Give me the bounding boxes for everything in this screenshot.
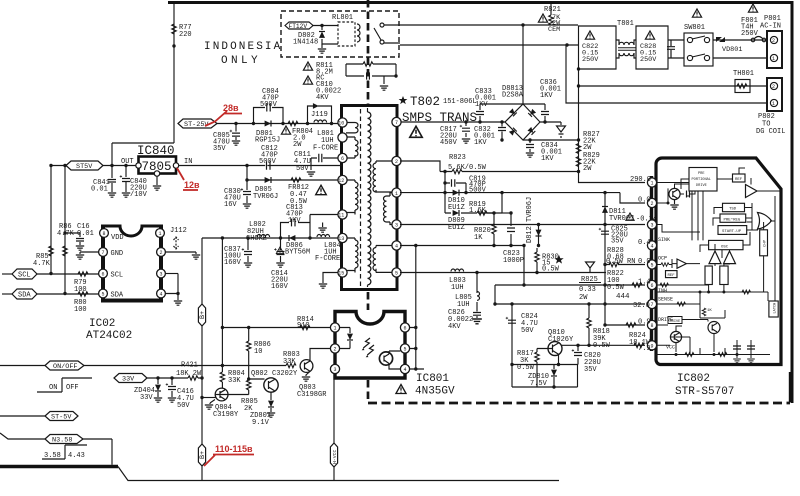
svg-text:IC801: IC801 bbox=[416, 373, 449, 385]
svg-text:10: 10 bbox=[254, 348, 262, 356]
svg-text:F-CORE: F-CORE bbox=[313, 145, 338, 153]
svg-text:ST-5V: ST-5V bbox=[51, 414, 72, 422]
wire FT12V to relay bbox=[312, 25, 338, 27]
svg-text:PRE*REG: PRE*REG bbox=[724, 217, 741, 222]
isolation dashed boundary vertical bbox=[367, 0, 370, 104]
svg-text:32.0: 32.0 bbox=[633, 302, 650, 310]
warning triangle C810 bbox=[303, 76, 312, 84]
IC802 internal: OR gate bbox=[758, 213, 772, 230]
diode D810 bbox=[453, 190, 459, 196]
svg-text:0.4: 0.4 bbox=[638, 239, 651, 247]
node bbox=[394, 74, 397, 77]
right winding seg pins4-5 bbox=[373, 246, 393, 273]
resistor R77 bbox=[172, 24, 176, 34]
capacitor C805 bbox=[235, 124, 237, 141]
svg-text:7.9: 7.9 bbox=[638, 345, 651, 353]
svg-text:SDA: SDA bbox=[111, 292, 124, 300]
svg-text:PORTIONAL: PORTIONAL bbox=[692, 178, 711, 182]
svg-text:12: 12 bbox=[338, 178, 344, 184]
svg-text:50V: 50V bbox=[177, 402, 190, 410]
svg-text:INH: INH bbox=[658, 288, 667, 294]
wire pin4 bbox=[400, 245, 524, 247]
capacitor C828 symbol bbox=[667, 40, 675, 58]
svg-text:D812 TVR06J: D812 TVR06J bbox=[526, 197, 534, 243]
IC801 phototransistor bbox=[379, 352, 392, 365]
resistor R822 bbox=[632, 283, 642, 287]
svg-text:35V: 35V bbox=[584, 366, 597, 374]
warning triangle T802 bbox=[410, 126, 422, 137]
svg-text:IC802: IC802 bbox=[677, 373, 710, 385]
svg-text:3: 3 bbox=[651, 223, 654, 229]
IC802 pin bar bbox=[650, 176, 653, 351]
svg-text:160V: 160V bbox=[271, 283, 289, 291]
svg-text:OCP: OCP bbox=[658, 256, 667, 262]
emitter bus bbox=[512, 364, 578, 366]
svg-text:1N4148: 1N4148 bbox=[293, 39, 318, 47]
ground bbox=[380, 86, 388, 90]
ground arrow bbox=[557, 126, 566, 132]
svg-text:220: 220 bbox=[179, 31, 192, 39]
svg-text:/10V: /10V bbox=[130, 191, 148, 199]
svg-text:1K: 1K bbox=[707, 309, 712, 313]
svg-text:4.43: 4.43 bbox=[68, 452, 85, 460]
zener ZD801 bbox=[270, 392, 272, 412]
capacitor C814 bbox=[280, 238, 282, 262]
svg-text:TVR06J: TVR06J bbox=[253, 193, 278, 201]
svg-text:3: 3 bbox=[395, 223, 398, 229]
zener ZD404 bbox=[157, 378, 159, 397]
IC802 pin 8 bbox=[647, 320, 656, 329]
red annotation 12v bbox=[177, 168, 184, 180]
diode D812 bbox=[538, 225, 540, 246]
Q803 collector to IC801 pin2 bbox=[310, 349, 330, 362]
IC802 internal: START-UP box bbox=[718, 226, 747, 235]
IC802 internal resistors and caps bottom bbox=[685, 353, 694, 357]
resistor R803 bbox=[286, 363, 296, 367]
warning triangle R811 bbox=[303, 62, 312, 70]
IC802 internal: ground bbox=[674, 200, 676, 204]
svg-text:TSD: TSD bbox=[729, 208, 737, 212]
flag N3.58 bbox=[0, 433, 45, 439]
svg-text:7: 7 bbox=[651, 302, 654, 308]
svg-text:1000P: 1000P bbox=[503, 257, 524, 265]
resistor R421 18K 2W bbox=[188, 376, 198, 380]
wire 33V bbox=[147, 377, 202, 379]
diodes VD801 bbox=[716, 37, 725, 42]
svg-text:100: 100 bbox=[74, 286, 87, 294]
wire pin1 feedback bbox=[400, 193, 645, 203]
warning triangle FR812 bbox=[316, 185, 327, 194]
red annotation 110-115v bbox=[204, 455, 215, 466]
wire pin2 to R823 bbox=[400, 161, 440, 172]
flag ST5V bbox=[66, 161, 103, 170]
left winding seg2 bbox=[346, 137, 358, 158]
wire to P802 lower bbox=[566, 45, 768, 103]
svg-text:REF: REF bbox=[735, 178, 743, 182]
wire to R830 bbox=[477, 272, 537, 274]
wire D805 row bbox=[247, 166, 338, 181]
svg-text:5: 5 bbox=[395, 271, 398, 277]
svg-text:1.4: 1.4 bbox=[638, 279, 651, 287]
switch SW801 bbox=[692, 9, 701, 17]
Q804 emitter ground bbox=[210, 400, 215, 405]
wire R77 rail bbox=[112, 4, 174, 166]
wire SCL bbox=[37, 273, 99, 275]
svg-text:1KV: 1KV bbox=[475, 101, 488, 109]
wire pin3 to IC802 bbox=[400, 224, 645, 226]
flag 33V bbox=[114, 374, 147, 383]
svg-text:BYT56M: BYT56M bbox=[285, 249, 310, 257]
wire R806 to Q802 base bbox=[216, 379, 265, 395]
pin 5 bbox=[392, 268, 401, 277]
primary winding bbox=[368, 112, 371, 285]
secondary rail to R814 bbox=[221, 238, 223, 366]
svg-text:28в: 28в bbox=[223, 103, 239, 113]
IC802 internal: REF box bbox=[733, 174, 746, 182]
svg-text:N3.58: N3.58 bbox=[52, 437, 72, 445]
right border inner bar bbox=[789, 372, 792, 402]
SENSE wire bbox=[495, 303, 645, 305]
wire bridge right to ground arrow bbox=[540, 122, 561, 125]
svg-text:H-VCC: H-VCC bbox=[332, 449, 338, 464]
svg-text:250V: 250V bbox=[582, 56, 599, 64]
svg-text:OFF: OFF bbox=[66, 384, 79, 392]
resistor R829 bbox=[576, 157, 580, 167]
dashed relay box bbox=[281, 11, 399, 57]
svg-text:2W: 2W bbox=[293, 141, 302, 149]
svg-text:2: 2 bbox=[772, 38, 775, 44]
pin 13 bbox=[338, 233, 347, 242]
resistor R86 bbox=[49, 246, 53, 256]
svg-text:2W: 2W bbox=[583, 144, 592, 152]
svg-text:J112: J112 bbox=[170, 227, 187, 235]
flag B+ upper bbox=[198, 304, 205, 326]
svg-text:1KV: 1KV bbox=[474, 139, 487, 147]
diode D802 bbox=[322, 26, 338, 45]
svg-text:0.5W: 0.5W bbox=[517, 364, 535, 372]
svg-text:7: 7 bbox=[395, 120, 398, 126]
flag ST-5V bbox=[0, 415, 45, 417]
svg-text:DG COIL: DG COIL bbox=[756, 128, 785, 136]
svg-text:STR-S5707: STR-S5707 bbox=[675, 386, 734, 398]
wire ST-25V rail bbox=[217, 123, 342, 125]
VCC wire pin9 bbox=[561, 344, 645, 346]
svg-text:1: 1 bbox=[159, 231, 162, 237]
svg-text:2: 2 bbox=[334, 347, 337, 353]
flag ON/OFF bbox=[45, 361, 84, 370]
svg-text:SW801: SW801 bbox=[684, 24, 705, 32]
resistor FR804 bbox=[288, 121, 298, 125]
svg-text:35V: 35V bbox=[213, 145, 226, 153]
pin 2 bbox=[157, 248, 166, 257]
capacitor C825 bbox=[599, 228, 609, 234]
zener ZD810 box bbox=[512, 304, 578, 387]
svg-text:9.1V: 9.1V bbox=[252, 419, 270, 427]
wire to P802 upper bbox=[579, 69, 769, 86]
svg-text:TH801: TH801 bbox=[733, 70, 754, 78]
Q810 emitter bbox=[558, 354, 560, 364]
capacitor C824 bbox=[506, 317, 516, 323]
svg-text:33K: 33K bbox=[283, 358, 296, 366]
svg-text:8: 8 bbox=[651, 323, 654, 329]
transformer core dashed bbox=[360, 109, 362, 286]
resistor R79 bbox=[78, 272, 88, 276]
capacitor C820 bbox=[577, 345, 579, 364]
resistor R804 bbox=[221, 366, 223, 389]
svg-text:6: 6 bbox=[102, 272, 105, 278]
regulator IC840 7805 bbox=[139, 157, 177, 174]
IC802 internal: cap bbox=[687, 191, 690, 198]
wire pin15 to ground bbox=[323, 273, 338, 284]
pin 10 bbox=[338, 118, 347, 127]
pin 8 VDD bbox=[100, 229, 109, 238]
IC801 pin 4 bbox=[400, 364, 409, 373]
ground 7805 bbox=[156, 176, 158, 185]
left winding seg1 bbox=[346, 123, 358, 133]
resistor R827 bbox=[576, 144, 580, 154]
svg-text:0.33: 0.33 bbox=[579, 286, 596, 294]
svg-text:ON: ON bbox=[49, 384, 57, 392]
svg-text:4N35GV: 4N35GV bbox=[415, 386, 455, 398]
transistor Q810 bbox=[548, 342, 562, 356]
svg-text:9: 9 bbox=[651, 344, 654, 350]
wire IN to C830 bbox=[179, 165, 342, 167]
pin 6 SCL bbox=[99, 269, 108, 278]
svg-text:3: 3 bbox=[334, 367, 337, 373]
svg-text:151-806L: 151-806L bbox=[443, 98, 477, 106]
capacitor C826 bbox=[476, 310, 478, 318]
flag SCL bbox=[2, 273, 12, 275]
IC802 internal wires bbox=[656, 168, 781, 352]
IC801 pin 3 bbox=[330, 364, 339, 373]
IC802 internal: PRE REG box bbox=[720, 214, 746, 222]
svg-text:2: 2 bbox=[395, 159, 398, 165]
svg-text:0.5W: 0.5W bbox=[593, 342, 611, 350]
svg-text:500V: 500V bbox=[259, 158, 277, 166]
transformer T802 body bbox=[342, 106, 398, 290]
pin 7 GND bbox=[99, 248, 108, 257]
IC802 internal: CHP box bbox=[760, 230, 768, 256]
svg-text:16V: 16V bbox=[224, 201, 237, 209]
wire C823 node to bus bbox=[523, 246, 525, 286]
wire IC801 pin6/5/4 bus bbox=[410, 246, 424, 370]
svg-text:15: 15 bbox=[338, 271, 344, 277]
inductor L803 bbox=[451, 269, 464, 272]
svg-text:50V: 50V bbox=[521, 327, 534, 335]
node bbox=[234, 122, 237, 125]
IC801 pin 5 bbox=[400, 344, 409, 353]
transistor Q804 bbox=[215, 388, 228, 401]
capacitor C840 bbox=[125, 166, 127, 193]
svg-text:0.0: 0.0 bbox=[638, 197, 651, 205]
svg-text:1: 1 bbox=[395, 191, 398, 197]
capacitor C823 bbox=[510, 213, 512, 246]
svg-text:1: 1 bbox=[334, 326, 337, 332]
svg-text:444: 444 bbox=[616, 293, 630, 301]
wires SW to fuse bbox=[713, 40, 768, 58]
svg-text:7: 7 bbox=[102, 250, 105, 256]
resistor R806 bbox=[248, 328, 250, 380]
svg-text:VDD: VDD bbox=[111, 234, 124, 242]
svg-text:0.01: 0.01 bbox=[91, 186, 108, 194]
HV dropper rail bbox=[578, 86, 580, 172]
fuse F801 bbox=[748, 4, 757, 12]
resistor R85 bbox=[63, 246, 67, 256]
inductor L801 bbox=[314, 120, 327, 123]
node bbox=[565, 43, 568, 46]
svg-text:33V: 33V bbox=[140, 394, 153, 402]
svg-text:2: 2 bbox=[651, 201, 654, 207]
svg-text:1UH: 1UH bbox=[457, 301, 470, 309]
Q804 base wire bbox=[202, 397, 216, 399]
svg-text:35V: 35V bbox=[611, 238, 624, 246]
IC802 pin 5 bbox=[647, 260, 656, 269]
AC wire lower bbox=[400, 44, 578, 46]
svg-text:8: 8 bbox=[103, 231, 106, 237]
svg-text:2: 2 bbox=[160, 250, 163, 256]
node bbox=[521, 23, 524, 26]
svg-text:CHP: CHP bbox=[764, 239, 768, 247]
wire bridge top to AC bbox=[522, 25, 524, 104]
svg-text:R823: R823 bbox=[449, 154, 466, 162]
warning triangle IC801 bbox=[396, 385, 406, 394]
svg-text:AC-IN: AC-IN bbox=[760, 23, 781, 31]
pin 15 bbox=[338, 268, 347, 277]
red annotation 28v bbox=[205, 111, 227, 126]
resistor FR812 bbox=[291, 178, 301, 182]
pin 12 bbox=[338, 175, 347, 184]
wire bridge bottom bbox=[523, 139, 579, 141]
svg-text:5: 5 bbox=[404, 347, 407, 353]
wire AC top caps bbox=[480, 103, 545, 105]
relay contact switch bbox=[380, 23, 384, 27]
diode D805 bbox=[265, 177, 271, 183]
svg-text:DRIVE: DRIVE bbox=[670, 320, 681, 324]
svg-text:B+: B+ bbox=[199, 311, 207, 319]
flag B+ lower bbox=[198, 444, 205, 466]
Q810 base resistor R817 bbox=[537, 349, 552, 388]
svg-text:IN: IN bbox=[184, 158, 192, 166]
svg-text:ON/OFF: ON/OFF bbox=[53, 363, 77, 371]
svg-text:33V: 33V bbox=[122, 376, 135, 384]
IC802 internal: TSD box bbox=[723, 203, 745, 211]
wires to SW801 bbox=[668, 40, 684, 58]
svg-text:F-CORE: F-CORE bbox=[315, 255, 340, 263]
left winding seg4 bbox=[346, 238, 358, 271]
resistor R814 bbox=[300, 325, 310, 329]
svg-text:4: 4 bbox=[651, 244, 654, 250]
capacitor C822 box bbox=[579, 26, 617, 69]
svg-text:500V: 500V bbox=[469, 187, 487, 195]
transistor Q802 bbox=[264, 378, 278, 392]
capacitor C813 loop bbox=[281, 215, 311, 239]
svg-text:1K: 1K bbox=[474, 234, 483, 242]
svg-text:FT12V: FT12V bbox=[289, 23, 308, 30]
svg-text:1UH: 1UH bbox=[451, 284, 464, 292]
svg-text:T802: T802 bbox=[410, 95, 440, 109]
Q803 emitter ground bbox=[306, 371, 310, 376]
svg-text:0.5W: 0.5W bbox=[607, 284, 625, 292]
svg-text:REF: REF bbox=[668, 274, 676, 278]
RC snubber network R811/C810 bbox=[346, 64, 396, 84]
svg-text:5: 5 bbox=[651, 263, 654, 269]
pin 4 bbox=[392, 241, 401, 250]
IC802 internal: PRE PORTIONAL DRIVE box bbox=[689, 168, 717, 192]
IC802 internal junction dots bbox=[699, 291, 702, 294]
resistor R820 bbox=[478, 213, 494, 246]
svg-text:6: 6 bbox=[404, 326, 407, 332]
svg-text:4: 4 bbox=[160, 292, 163, 298]
svg-text:RGP15J: RGP15J bbox=[255, 137, 280, 145]
top bus bar bbox=[168, 1, 793, 4]
svg-text:LATCH: LATCH bbox=[774, 303, 778, 314]
svg-text:SENSE: SENSE bbox=[658, 297, 673, 303]
left winding seg3 bbox=[346, 180, 358, 213]
pin 1 bbox=[156, 229, 165, 238]
ON/OFF wire bbox=[0, 365, 286, 367]
svg-text:T801: T801 bbox=[617, 20, 634, 28]
svg-text:START-UP: START-UP bbox=[722, 230, 742, 234]
optocoupler IC801 outline bbox=[335, 312, 405, 379]
jumper J119 bbox=[308, 104, 332, 124]
svg-text:4.7K: 4.7K bbox=[33, 260, 51, 268]
resistor R825 with arrow ground bbox=[589, 268, 591, 273]
svg-text:10: 10 bbox=[338, 121, 344, 127]
resistor R818 bbox=[588, 304, 590, 345]
svg-text:IC02: IC02 bbox=[89, 318, 115, 330]
junction bbox=[172, 44, 175, 47]
pin 5 SDA bbox=[99, 289, 108, 298]
wire to IC802 pin1 bbox=[579, 172, 646, 183]
diode D809 / resistor R819 loop bbox=[445, 193, 502, 213]
IC802 internal: comparator triangles bbox=[709, 251, 721, 264]
IC802 internal: LATCH box bbox=[769, 301, 778, 317]
IC802 internal: DRIVE label bbox=[668, 317, 682, 324]
flag FT12V bbox=[285, 22, 313, 29]
wire to IC801 pin1 bbox=[222, 327, 330, 329]
pin 3 bbox=[157, 269, 166, 278]
svg-text:C3198GR: C3198GR bbox=[297, 391, 327, 399]
inductor L804 bbox=[317, 235, 330, 238]
svg-text:18K 2W: 18K 2W bbox=[176, 370, 202, 378]
diode D801 bbox=[265, 121, 271, 127]
svg-text:ST5V: ST5V bbox=[76, 163, 93, 171]
T802 transformer label bbox=[399, 96, 408, 104]
feedback bus bbox=[495, 285, 645, 304]
svg-text:D2S8A: D2S8A bbox=[502, 92, 524, 100]
ground bbox=[321, 44, 323, 48]
diode D806 bbox=[289, 235, 295, 241]
IC802 internal: REF2 box bbox=[666, 271, 678, 278]
svg-text:4KV: 4KV bbox=[316, 94, 329, 102]
svg-text:VD801: VD801 bbox=[722, 46, 742, 54]
wire pin8 bbox=[605, 324, 645, 326]
AC wire upper bbox=[400, 24, 578, 26]
connector P802 bbox=[767, 78, 782, 111]
pin 3 bbox=[392, 220, 401, 229]
svg-text:SCL: SCL bbox=[111, 272, 124, 280]
flag H-VCC bbox=[330, 443, 337, 467]
IC802 pin 9 bbox=[647, 341, 656, 350]
svg-text:2W: 2W bbox=[583, 165, 592, 173]
resistor R805 bbox=[248, 379, 250, 395]
svg-text:160V: 160V bbox=[224, 259, 242, 267]
svg-text:6: 6 bbox=[651, 283, 654, 289]
wire ST5V bbox=[51, 165, 136, 167]
IC802 pin 7 bbox=[647, 299, 656, 308]
svg-text:0.5W RN: 0.5W RN bbox=[606, 258, 635, 266]
IC802 internal: resistor boxes bbox=[705, 266, 712, 285]
